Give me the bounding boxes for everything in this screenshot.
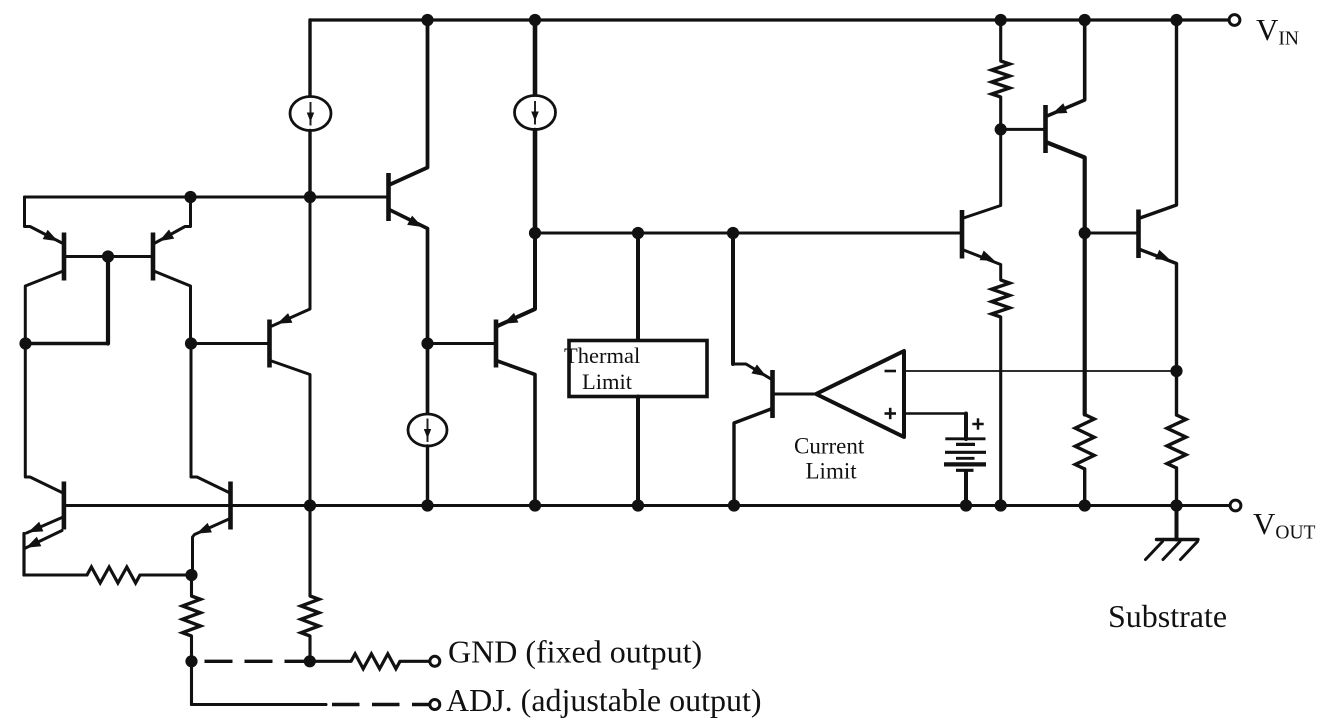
transistor Q9 collector (964, 129, 1001, 218)
battery B1 plate5 long (944, 462, 986, 466)
transistor Q10 base bar (1043, 105, 1048, 153)
transistor Q8 collector (734, 409, 771, 506)
U1 plus sign (885, 408, 897, 419)
wire I1 to node (308, 131, 311, 198)
battery B1 plate3 long (945, 451, 986, 454)
battery B1 plate1 long (945, 437, 985, 440)
transistor Q2 emitter arrow (159, 230, 174, 242)
transistor Q11 base bar (1136, 210, 1141, 259)
wire Q5 emitter to R7 (24, 573, 87, 576)
wire Q8 base (773, 393, 815, 396)
svg-text:Substrate: Substrate (1108, 598, 1227, 634)
wire I2 feed (533, 20, 538, 95)
wire I1 feed (308, 20, 311, 97)
wire R2 bottom (1083, 469, 1086, 506)
U1 minus sign (885, 370, 897, 373)
wire base tie horizontal (25, 342, 108, 345)
node battery rail (960, 499, 972, 511)
label Thermal Limit (564, 343, 640, 394)
label V_IN (1256, 12, 1299, 50)
battery B1 plate4 short (956, 457, 975, 460)
transistor Q8 emitter arrow (751, 365, 766, 377)
transistor Q11 emitter wire (1140, 250, 1177, 416)
transistor Q5 collector (25, 344, 62, 493)
wire V_OUT bottom rail (64, 504, 1230, 507)
node A (185, 337, 197, 349)
node GND-mid (304, 655, 316, 667)
node Q4 emitter/Q7 base (421, 337, 433, 349)
transistor Q1 emitter wire (25, 197, 63, 243)
current source I1 (290, 97, 331, 131)
node top-Q4 (421, 14, 433, 26)
node top-I2 (529, 14, 541, 26)
transistor Q4 emitter wire (390, 210, 428, 415)
wire ADJ solid (192, 703, 327, 706)
resistor R2 (1075, 415, 1094, 470)
svg-text:VIN: VIN (1256, 12, 1299, 50)
thermal limit box (569, 341, 707, 397)
wire I3 to rail (426, 446, 429, 506)
wire R8 to terminal (400, 660, 430, 663)
wire base tie vertical (106, 257, 110, 344)
wire battery bottom stub (964, 472, 968, 506)
transistor Q9 emitter arrow (980, 251, 995, 262)
wire battery top stub (964, 414, 968, 440)
transistor Q7 base bar (494, 320, 499, 368)
wire ADJ dashed (332, 703, 429, 706)
label ADJ (446, 682, 762, 718)
terminal V_IN (1229, 15, 1240, 26)
wire TL bottom (636, 397, 640, 506)
terminal ADJ (430, 700, 440, 710)
node top-Q11 (1170, 14, 1182, 26)
transistor Q6 base bar (228, 482, 233, 530)
battery B1 plate6 short (956, 469, 974, 472)
node R2 rail (1079, 499, 1091, 511)
svg-text:ADJ. (adjustable output): ADJ. (adjustable output) (446, 682, 762, 718)
node TL rail (632, 499, 644, 511)
wire V_IN top rail (310, 18, 1229, 21)
transistor Q3 emitter wire (272, 197, 310, 326)
resistor R3 (1167, 415, 1186, 468)
resistor R7 (87, 567, 140, 583)
current source I2 (515, 96, 556, 130)
transistor Q1 emitter arrow (43, 230, 58, 241)
transistor Q4 collector (390, 20, 428, 185)
node GND-left (185, 655, 197, 667)
transistor Q7 emitter arrow (503, 313, 518, 324)
transistor Q3 base bar (267, 320, 272, 368)
node bias-Q2 (184, 191, 196, 203)
wire Q5 emitter join (22, 534, 25, 576)
node bias-I1 (304, 191, 316, 203)
wire ADJ vertical (190, 661, 193, 704)
wire R5 top (190, 575, 193, 596)
transistor Q5 emitter2 wire (25, 531, 63, 549)
transistor Q6 emitter wire (193, 519, 230, 575)
node top-Q10 (1079, 14, 1091, 26)
current source I3 (408, 414, 447, 446)
transistor Q5 emitter1 arrow (28, 522, 43, 533)
transistor Q7 collector (498, 361, 536, 506)
transistor Q3 collector (272, 361, 311, 506)
transistor Q8 emitter wire (733, 364, 771, 379)
node Q8 collector rail (728, 499, 740, 511)
wire U1 plus input (904, 412, 966, 415)
node R4 rail (995, 499, 1007, 511)
ground (1146, 540, 1199, 560)
wire GND dashed (205, 660, 312, 663)
node drive-TL (632, 227, 644, 239)
transistor Q10 emitter wire (1047, 20, 1085, 116)
terminal GND (430, 656, 440, 666)
transistor Q7 emitter wire (498, 233, 536, 326)
wire I2 to drive node (533, 130, 538, 233)
wire bias line y197 (25, 196, 387, 199)
transistor Q6 collector (191, 344, 229, 493)
terminal V_OUT (1230, 500, 1241, 511)
node B (185, 569, 197, 581)
resistor R1 (992, 61, 1010, 97)
transistor Q4 emitter arrow (407, 216, 422, 227)
label V_OUT (1253, 506, 1316, 544)
wire R5 bottom (190, 636, 193, 661)
transistor Q2 emitter wire (155, 197, 191, 243)
svg-text:Current: Current (794, 434, 865, 459)
transistor Q5 emitter2 arrow (26, 537, 41, 548)
transistor Q11 collector (1140, 20, 1177, 218)
svg-text:VOUT: VOUT (1253, 506, 1316, 544)
label Current Limit (794, 434, 865, 484)
wire R4 bottom (999, 317, 1002, 506)
battery plus label (972, 418, 983, 429)
resistor R4 (992, 280, 1010, 317)
node Q10 collector/Q11 base (1079, 227, 1091, 239)
resistor R8 (351, 654, 400, 669)
wire U1 minus input (904, 370, 1177, 372)
wire Q10 base (1001, 128, 1044, 131)
node top-R1 (995, 14, 1007, 26)
node Q3 collector rail (304, 499, 316, 511)
battery B1 plate2 short (956, 443, 975, 446)
transistor Q4 base bar (386, 173, 391, 221)
op-amp U1 (816, 351, 904, 437)
wire R3 bottom (1175, 468, 1178, 506)
wire R6 top (308, 506, 311, 597)
node minus-input (1170, 365, 1182, 377)
wire R6 bottom (308, 636, 311, 661)
svg-text:Limit: Limit (582, 369, 633, 394)
node R1-Q10 base (995, 123, 1007, 135)
transistor Q2 base bar (151, 233, 156, 281)
resistor R6 (301, 596, 319, 636)
wire Q8 emitter feed (731, 233, 735, 364)
wire GND solid (310, 660, 351, 663)
wire Q7 base (428, 342, 495, 345)
transistor Q5 base bar (62, 482, 67, 530)
transistor Q10 collector (1047, 143, 1085, 415)
svg-text:Thermal: Thermal (564, 343, 640, 368)
transistor Q9 emitter wire (964, 250, 1001, 280)
node drive-I2 (529, 227, 541, 239)
node Q7 collector rail (529, 499, 541, 511)
transistor Q5 emitter1 wire (27, 518, 63, 534)
wire drive line y233 (535, 231, 960, 234)
transistor Q2 collector (155, 272, 191, 344)
node drive-Q8 (727, 227, 739, 239)
node Q1Q2 base (102, 250, 114, 262)
wire R1 top (999, 20, 1002, 61)
transistor Q6 emitter arrow (197, 523, 212, 534)
transistor Q1 base bar (62, 233, 67, 281)
transistor Q9 base bar (960, 210, 965, 259)
svg-text:Limit: Limit (806, 459, 858, 484)
wire Q1-Q2 base (64, 255, 151, 258)
node Q1 collector (19, 337, 31, 349)
transistor Q8 base bar (770, 370, 775, 418)
wire R7 to node B (140, 573, 192, 576)
transistor Q1 collector (25, 272, 62, 344)
transistor Q3 emitter arrow (277, 313, 292, 324)
label GND (448, 634, 702, 670)
node R3 rail (1170, 499, 1182, 511)
wire TL top (636, 233, 640, 341)
resistor R5 (183, 596, 201, 636)
wire Q3 base (191, 342, 268, 345)
transistor Q11 emitter arrow (1155, 250, 1170, 261)
label Substrate (1108, 598, 1227, 634)
svg-text:GND (fixed output): GND (fixed output) (448, 634, 702, 670)
wire ground stub (1175, 506, 1179, 540)
wire Q11 base (1085, 232, 1136, 235)
wire R1 bottom (999, 97, 1002, 129)
node I3 rail (421, 499, 433, 511)
transistor Q10 emitter arrow (1052, 103, 1067, 114)
